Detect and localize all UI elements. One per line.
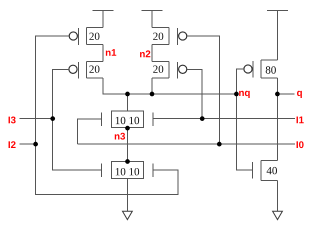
- bubble Q3 gate: [69, 65, 77, 73]
- junction I0 tap: [217, 142, 222, 147]
- value label 20 Q4: [153, 65, 163, 72]
- vdd bar middle: [142, 11, 163, 28]
- wire net I2 (Q1 gate, down and across to U2 right gate riser): [36, 36, 179, 194]
- wire net I0 line (U1 left gate riser to I0 label): [77, 119, 295, 144]
- junction U1 bottom terminal: [125, 126, 130, 131]
- bubble Q1 gate: [69, 32, 77, 40]
- net label I1: [297, 117, 304, 124]
- net label q: [297, 91, 302, 98]
- value label 20 Q1: [89, 33, 99, 40]
- wire net q (Q5 drain to Q6 drain): [276, 78, 278, 160]
- wire U2 bottom to ground: [127, 179, 129, 212]
- wire nq bus (Q3 drain down, along to nq vertical): [103, 78, 236, 94]
- value label 10 10 U1: [116, 117, 139, 124]
- net label I3: [9, 117, 16, 124]
- pmos Q5 80 (output pullup): [253, 60, 277, 78]
- pmos Q3 20 (row2 left): [79, 62, 103, 79]
- U1 right gate bar: [152, 112, 154, 126]
- pass pair box U1 (10 10 top): [112, 111, 144, 128]
- pmos Q4 20 (row2 right): [152, 62, 178, 79]
- junction U2 top terminal: [125, 159, 130, 164]
- ground symbol middle: [123, 211, 133, 219]
- junction node nq: [234, 92, 239, 97]
- wire U1 top terminal to nq bus: [127, 94, 129, 111]
- junction I1 tap: [200, 116, 205, 121]
- vdd bar right: [267, 11, 288, 61]
- bubble Q2 gate: [179, 32, 187, 40]
- nmos Q6 40 (output pulldown): [252, 161, 277, 181]
- value label 40 Q6: [267, 167, 277, 174]
- junction U1 top on nq bus: [125, 92, 130, 97]
- value label 80 Q5: [266, 66, 276, 73]
- wire Q4 gate to I1 line: [187, 69, 202, 118]
- ground symbol right: [273, 211, 283, 219]
- junction Q4 drain on nq bus: [150, 92, 155, 97]
- pmos Q2 20 (row1 right): [152, 28, 178, 46]
- junction node q: [275, 92, 280, 97]
- net label n1: [106, 49, 116, 56]
- wire net I3 vertical (Q3 gate and U2 left gate): [53, 69, 102, 170]
- vdd bar left: [93, 11, 114, 28]
- pmos Q1 20 (row1 left): [79, 28, 103, 46]
- value label 10 10 U2: [116, 168, 139, 175]
- bubble Q4 gate: [179, 65, 187, 73]
- U2 left gate bar: [101, 163, 103, 177]
- wire nq vertical (Q5 gate to Q6 gate): [236, 69, 252, 170]
- junction I2 tap: [33, 142, 38, 147]
- net label n2: [140, 50, 150, 57]
- value label 20 Q3: [89, 65, 99, 72]
- pass pair box U2 (10 10 bottom): [112, 162, 144, 179]
- wire I3 input stub: [19, 118, 52, 120]
- net label nq: [239, 91, 250, 98]
- wire net n3 (U1 bottom to U2 top): [127, 128, 129, 162]
- wire q output stub: [277, 93, 294, 95]
- wire net n1 (Q1 drain to Q3 source): [102, 44, 104, 61]
- wire net I1 line (U1 right gate to I1 label): [153, 118, 295, 120]
- value label 20 Q2: [153, 33, 163, 40]
- wire Q6 source to ground: [276, 180, 278, 211]
- wire Q4 drain to nq bus: [151, 78, 153, 94]
- net label n3: [115, 133, 125, 140]
- U1 left gate bar: [101, 112, 103, 126]
- bubble Q5 gate: [244, 65, 252, 73]
- wire I2 input stub: [19, 143, 35, 145]
- wire Q2 gate to I0 line: [187, 36, 219, 144]
- junction I3 tap: [50, 116, 55, 121]
- U2 right gate bar: [152, 163, 154, 177]
- net label I2: [9, 141, 16, 148]
- wire net n2 (Q2 drain to Q4 source): [151, 44, 153, 61]
- net label I0: [297, 141, 304, 148]
